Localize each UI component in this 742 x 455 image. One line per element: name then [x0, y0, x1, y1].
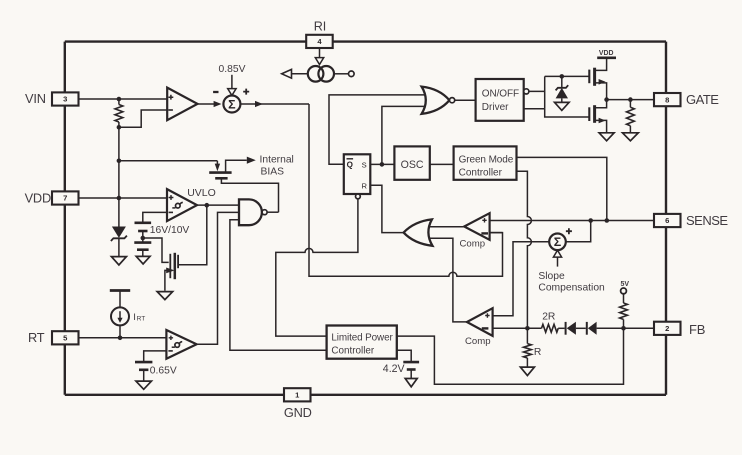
- Comp1 + mark: [482, 218, 486, 222]
- op-amp - mark: [168, 109, 173, 111]
- svg-text:I: I: [133, 312, 136, 323]
- svg-text:6: 6: [665, 216, 669, 225]
- svg-text:OSC: OSC: [401, 159, 424, 171]
- RT comp hysteresis mark: [175, 343, 180, 348]
- wire diode2 to FB node: [597, 327, 654, 329]
- wire R input from OR gate: [370, 185, 403, 232]
- wire NAND input 2 from RT comparator: [196, 212, 239, 344]
- wire VDD to PMOS drain: [596, 58, 607, 71]
- wire summer output route to Comp1 - input: [309, 104, 503, 276]
- svg-text:GATE: GATE: [686, 92, 719, 107]
- svg-text:0.65V: 0.65V: [150, 366, 177, 377]
- open arrowhead into mirror: [315, 58, 323, 65]
- arrow on PMOS source: [599, 79, 606, 85]
- wire battery to ground: [142, 250, 144, 257]
- wire zener to ground: [118, 238, 120, 256]
- svg-text:Driver: Driver: [482, 102, 509, 113]
- transistor Q-hyst channel bar: [174, 253, 177, 279]
- SR flip-flop U-ff: [344, 154, 371, 194]
- diode D2 cathode bar: [586, 322, 588, 335]
- wire pin4 to mirror: [319, 48, 321, 58]
- wire VIN column down to VDD junction: [118, 127, 120, 198]
- wire slope summer to SENSE tap: [566, 221, 591, 242]
- transistor M-N gate bar: [588, 107, 590, 121]
- wire diode1 to diode2: [576, 327, 586, 329]
- wire internal-bias drain to arrow: [226, 160, 247, 172]
- wire internal-bias gate to NAND output net: [221, 178, 278, 212]
- svg-text:Comp: Comp: [460, 238, 486, 249]
- wire NOR output to driver: [455, 99, 476, 101]
- wire slope arrow stem: [557, 257, 559, 267]
- node UVLO output: [205, 203, 210, 208]
- wire PMOS source to gate node: [596, 83, 607, 100]
- svg-text:0.85V: 0.85V: [219, 64, 246, 75]
- svg-text:3: 3: [63, 95, 67, 104]
- wire flip-flop Q output to limited-power controller: [276, 199, 358, 336]
- svg-text:UVLO: UVLO: [187, 187, 216, 199]
- ground below gate resistor: [623, 133, 639, 141]
- svg-text:GND: GND: [284, 405, 312, 420]
- ground below NMOS: [599, 133, 614, 141]
- wire OSC to green-mode controller: [430, 163, 454, 165]
- wire NAND output: [267, 211, 278, 213]
- node internal-bias tap: [117, 159, 122, 164]
- arrow on MOSFET source: [166, 268, 174, 274]
- pin 6 box (SENSE): [654, 214, 681, 227]
- svg-text:R: R: [534, 347, 541, 358]
- transistor Q-hyst gate bar: [169, 254, 171, 278]
- RT comp - mark: [168, 350, 172, 352]
- node FB divider junction: [621, 326, 626, 331]
- svg-text:Green Mode: Green Mode: [459, 154, 514, 165]
- clamp zener diode D-clamp: [561, 76, 563, 87]
- ground below MOSFET: [157, 292, 173, 300]
- wire tap to pull-down resistor: [629, 100, 631, 108]
- wire VIN tap to internal-bias transistor: [119, 160, 217, 162]
- terminal circle 5V: [621, 288, 627, 294]
- UVLO hysteresis mark: [176, 203, 181, 208]
- summing junction slope compensation: [549, 234, 566, 251]
- Comp1 - mark: [481, 232, 488, 234]
- wire green-mode bottom output to FB node: [517, 171, 532, 328]
- svg-text:Controller: Controller: [459, 167, 503, 178]
- wire RT pin5 to comparator: [79, 337, 167, 339]
- IC boundary border (bottom): [65, 394, 666, 396]
- wire OR bottom input from Comp2: [430, 238, 467, 322]
- UVLO + mark: [169, 195, 174, 200]
- flip-flop bottom output bubble: [356, 194, 361, 199]
- wire gate-drive bottom branch to NMOS gate: [545, 109, 590, 117]
- wire UVLO output to NAND input 1: [197, 204, 239, 206]
- wire Comp2 - input to FB divider: [493, 327, 542, 329]
- transistor internal-bias channel plate: [209, 171, 231, 174]
- svg-text:Σ: Σ: [228, 98, 236, 112]
- node green-mode tap on SENSE: [605, 218, 610, 223]
- svg-text:VDD: VDD: [25, 190, 51, 205]
- OSC box U-osc: [394, 146, 429, 179]
- IRT rail bar: [110, 289, 130, 292]
- svg-text:Limited Power: Limited Power: [331, 333, 393, 344]
- diode D1 body: [567, 322, 576, 335]
- battery 4.2V: [403, 361, 419, 364]
- wire driver output to gate-drive node: [529, 90, 545, 92]
- wire SENSE line: [490, 220, 654, 222]
- transistor Q-hyst drain contact: [177, 255, 179, 268]
- wire 5V to pull-up resistor: [623, 294, 625, 303]
- wire S junction to NOR input 2: [382, 106, 424, 164]
- OR gate U-or: [404, 219, 433, 245]
- svg-text:16V/10V: 16V/10V: [150, 225, 190, 236]
- wire gate-drive top branch to PMOS gate: [545, 75, 590, 77]
- pin 4 box (RI): [306, 35, 333, 48]
- UVLO - mark: [169, 211, 173, 213]
- IRT arrow: [119, 311, 121, 318]
- open arrowhead mirror left: [282, 69, 292, 78]
- wire current source to RT line: [119, 325, 121, 337]
- wire UVLO - input to 16V/10V reference: [143, 212, 167, 222]
- wire NMOS drain to gate node: [596, 100, 607, 108]
- resistor 2R: [542, 324, 559, 332]
- wire summer output: [240, 103, 309, 105]
- node S input junction: [380, 162, 385, 167]
- svg-text:SENSE: SENSE: [686, 213, 728, 228]
- comparator Comp1 (PWM): [464, 213, 489, 240]
- wire mirror to left arrow: [292, 73, 308, 75]
- Comp2 - mark: [482, 327, 489, 329]
- transistor M-P gate bar: [588, 70, 590, 84]
- VDD rail bar: [597, 56, 616, 59]
- wire divider tap jog to error-amp - input: [119, 110, 167, 127]
- svg-text:ON/OFF: ON/OFF: [482, 89, 519, 100]
- svg-text:2R: 2R: [542, 312, 555, 323]
- wire resistor to ground: [629, 126, 631, 133]
- svg-text:VIN: VIN: [25, 91, 46, 106]
- ground below R: [520, 367, 534, 375]
- pin 5 box (RT): [52, 331, 79, 344]
- battery 16V/10V cell 2: [134, 241, 151, 244]
- pin 2 box (FB): [654, 322, 681, 335]
- wire pull-up to FB node: [623, 319, 625, 328]
- wire resistor bottom to lower node: [118, 122, 120, 127]
- svg-text:S: S: [362, 160, 367, 169]
- ON/OFF Driver box U-drv: [476, 79, 524, 121]
- arrowhead into summer: [214, 101, 222, 107]
- wire R to ground: [526, 358, 528, 367]
- pin 8 box (GATE): [654, 93, 681, 106]
- svg-text:8: 8: [665, 95, 669, 104]
- wire Comp2 + input from slope summer: [493, 242, 549, 316]
- current mirror circle right: [318, 66, 334, 82]
- plus mark slope summer: [566, 228, 572, 234]
- node gate output: [604, 97, 609, 102]
- svg-text:7: 7: [63, 194, 67, 203]
- IC boundary border (top): [65, 40, 666, 42]
- comparator RT (0.65V): [166, 330, 196, 359]
- svg-text:Compensation: Compensation: [538, 283, 605, 294]
- wire VIN column stem to resistor: [118, 99, 120, 105]
- svg-text:Comp: Comp: [465, 336, 491, 347]
- current mirror circle left: [308, 66, 324, 82]
- wire battery tap to MOSFET gate: [143, 238, 169, 262]
- node gate pull-down tap: [628, 97, 633, 102]
- node clamp diode anode: [560, 74, 565, 79]
- node slope-comp tap on SENSE: [588, 218, 593, 223]
- op-amp + mark: [169, 95, 174, 100]
- ground below zener: [111, 257, 126, 265]
- node VIN (junction on pin3 wire): [117, 97, 122, 102]
- svg-text:Controller: Controller: [331, 346, 375, 357]
- svg-text:RI: RI: [314, 20, 327, 34]
- wire op-amp output to summer: [198, 103, 216, 105]
- Green Mode Controller box U-gmc: [454, 146, 517, 179]
- wire gate node to GATE pin: [607, 99, 654, 101]
- wire Qbar to NOR input 1: [329, 95, 425, 164]
- svg-text:FB: FB: [689, 322, 705, 337]
- IC boundary border (left): [64, 42, 66, 395]
- svg-text:Internal: Internal: [260, 155, 294, 166]
- svg-text:2: 2: [665, 324, 669, 333]
- wire divider junction to R: [526, 328, 528, 343]
- wire NAND input 3 to limited-power controller: [230, 220, 327, 350]
- svg-text:Q: Q: [347, 160, 353, 169]
- resistor R to ground: [524, 344, 532, 358]
- wire 4.2V battery to ground: [410, 370, 412, 379]
- svg-text:Σ: Σ: [554, 235, 562, 249]
- terminal circle right of mirror: [349, 71, 355, 77]
- wire MOSFET source to ground: [165, 270, 173, 290]
- IC boundary border (right): [665, 42, 667, 395]
- wire 2R to diode 1: [558, 327, 564, 329]
- node gate tap on battery stack: [141, 236, 146, 241]
- open arrowhead slope input: [553, 250, 561, 257]
- wire VIN pin3 to error-amp + input: [79, 98, 168, 100]
- resistor FB pull-up: [620, 303, 628, 319]
- zener diode on VDD node stem: [118, 198, 120, 227]
- resistor divider on VIN: [115, 105, 123, 122]
- NAND output bubble: [262, 210, 267, 215]
- diode D1 cathode bar: [565, 322, 567, 335]
- node Comp2/divider junction: [525, 326, 530, 331]
- plus mark at summer: [243, 89, 249, 95]
- driver output bubble: [524, 89, 529, 94]
- arrow on NMOS source: [599, 118, 606, 124]
- wire between battery cells: [142, 231, 144, 243]
- svg-text:4.2V: 4.2V: [383, 363, 406, 375]
- svg-text:R: R: [361, 181, 367, 190]
- pin 3 box (VIN): [52, 92, 79, 105]
- svg-text:RT: RT: [28, 330, 45, 345]
- summing junction (0.85V): [223, 96, 240, 113]
- current source IRT circle: [111, 307, 129, 325]
- arrowhead on summer output wire: [255, 101, 263, 107]
- node divider tap: [117, 125, 122, 130]
- resistor gate pull-down: [627, 107, 635, 126]
- NOR gate U-nor: [422, 87, 450, 114]
- svg-text:RT: RT: [137, 316, 146, 323]
- RT comp + mark: [169, 336, 173, 340]
- Limited Power Controller box U-lpc: [327, 326, 397, 359]
- wire LPC to 4.2V reference: [397, 350, 411, 362]
- ground below 4.2V: [405, 379, 417, 387]
- zener diode cathode bar: [111, 236, 127, 241]
- svg-text:5V: 5V: [621, 281, 630, 288]
- wire mirror right to terminal: [334, 73, 349, 75]
- wire rail to current source: [119, 291, 121, 308]
- ground below 0.65V: [136, 381, 152, 389]
- svg-text:VDD: VDD: [599, 50, 614, 57]
- svg-text:BIAS: BIAS: [261, 167, 285, 178]
- node VDD junction: [117, 196, 122, 201]
- minus mark at summer: [213, 91, 218, 93]
- zener diode body: [112, 227, 126, 238]
- wire VDD pin7 to UVLO + input: [79, 197, 168, 199]
- wire driver second output: [524, 108, 545, 110]
- ground below clamp diode: [555, 102, 570, 110]
- arrow into internal-bias source: [215, 164, 220, 172]
- pin 1 box (GND): [284, 388, 311, 401]
- svg-text:Slope: Slope: [538, 271, 565, 282]
- wire NMOS source to ground: [596, 120, 607, 132]
- battery 0.65V: [135, 361, 152, 364]
- wire Comp1 output to OR gate: [430, 226, 465, 228]
- battery 16V/10V cell 1: [135, 222, 152, 225]
- open arrowhead 0.85V into summer: [228, 89, 236, 96]
- NOR output bubble: [450, 98, 455, 103]
- Comp2 + mark: [485, 313, 489, 317]
- pin 7 box (VDD): [52, 191, 79, 204]
- wire Comp1 - input stub: [490, 232, 503, 234]
- wire 0.85V reference stem: [231, 75, 233, 89]
- wire S input from OSC: [370, 163, 394, 165]
- diode D2 body: [588, 322, 597, 335]
- NAND gate U-nand: [239, 199, 262, 225]
- wire FB node to limited-power controller: [397, 328, 624, 384]
- wire green-mode top output to SENSE line: [517, 157, 607, 220]
- op-amp error amplifier: [167, 88, 197, 121]
- wire gate-drive vertical: [544, 76, 546, 108]
- comparator UVLO: [167, 189, 197, 221]
- node IRT tap: [118, 336, 123, 341]
- transistor M-N channel bar: [593, 105, 596, 123]
- wire RT comp - to 0.65V reference: [144, 351, 167, 362]
- wire 0.65V battery to ground: [143, 370, 145, 381]
- arrowhead Internal BIAS: [247, 157, 256, 164]
- wire MOSFET drain to UVLO output: [178, 205, 207, 265]
- transistor M-P channel bar: [593, 68, 596, 86]
- comparator Comp2 (limit): [467, 308, 493, 336]
- transistor internal-bias gate plate: [215, 177, 227, 180]
- ground below 16V/10V battery: [136, 256, 150, 264]
